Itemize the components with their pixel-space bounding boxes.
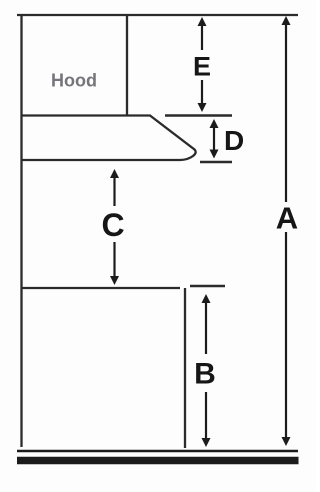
svg-text:Hood: Hood [51, 71, 97, 91]
svg-text:D: D [224, 125, 244, 156]
svg-text:E: E [193, 52, 211, 82]
svg-text:C: C [101, 207, 124, 243]
svg-text:B: B [194, 357, 216, 390]
svg-text:A: A [276, 200, 298, 235]
